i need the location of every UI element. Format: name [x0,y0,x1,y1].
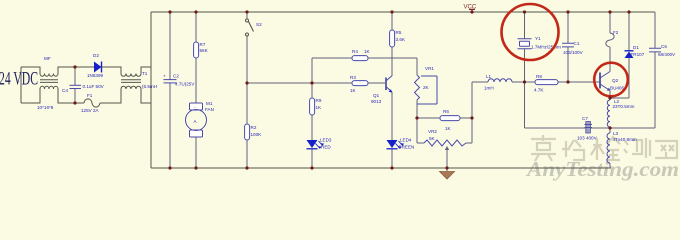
motor M1 FAN [190,103,203,110]
svg-text:M1: M1 [206,101,213,106]
svg-text:1mH: 1mH [484,86,494,91]
wire y58 [312,57,417,59]
source bracket [20,67,22,103]
svg-text:1K: 1K [350,88,357,93]
svg-text:100K: 100K [251,132,263,137]
svg-text:D1: D1 [633,45,639,50]
Q2 emitter / L2 / L3 branch [609,91,611,169]
svg-text:RED: RED [321,145,331,150]
svg-text:0.1uF 50V: 0.1uF 50V [83,84,105,89]
wire y118 with R6 [417,117,472,119]
wire y128 [525,127,656,129]
svg-text:VCC: VCC [464,5,477,11]
capacitor C2 branch [169,12,171,168]
svg-text:C4: C4 [62,88,68,93]
svg-text:L1: L1 [486,74,492,79]
LED3 RED [307,140,318,148]
svg-text:F1: F1 [87,93,93,98]
fuse F1 [84,99,100,107]
svg-text:F2: F2 [613,30,619,35]
svg-text:10*16*8: 10*16*8 [37,105,54,110]
top rail [151,11,655,13]
inductor L2 [607,100,610,127]
crystal Y1 branch [524,12,526,128]
svg-text:1K: 1K [445,126,452,131]
annotation red circle 1 (crystal) [502,4,559,60]
svg-text:FR107: FR107 [631,52,645,57]
svg-text:C6: C6 [661,44,667,49]
resistor R2 100K [245,124,250,140]
wire y82 from bridge to Q2 base, with L1 gap [472,81,600,83]
svg-text:R8: R8 [536,74,542,79]
svg-text:BU406: BU406 [610,86,624,91]
diode D1 FR107 [625,52,634,59]
svg-text:68/400V: 68/400V [658,52,676,57]
switch S2 [246,19,249,22]
svg-text:LED4: LED4 [400,138,412,143]
LED4 GREEN [387,140,398,148]
resistor R5 3.6K [390,30,395,47]
wire: bottom input wire + choke bottom winding [21,86,84,103]
T1 core [121,80,141,83]
svg-text:Q2: Q2 [612,78,619,83]
crystal Y1 [518,39,532,49]
right edge vertical + C6 [654,12,656,128]
wire y83 from S2 branch to Q1 base [247,82,385,84]
svg-text:AnyTesting.com: AnyTesting.com [525,157,679,181]
svg-text:+: + [163,74,166,79]
resistor R4 1K [352,56,368,61]
resistor R8 4.7K [535,80,558,85]
svg-text:L3: L3 [613,131,619,136]
svg-text:23T0.5mm: 23T0.5mm [613,104,635,109]
svg-text:R2: R2 [251,125,257,130]
Q1 emitter / LED4 branch [391,92,393,168]
svg-text:125V 2A: 125V 2A [81,108,100,113]
svg-text:FAN: FAN [205,107,214,112]
svg-text:R6: R6 [443,109,449,114]
svg-text:VR1: VR1 [425,66,434,71]
diode D2 1N5399 [94,62,102,73]
wire: top input wire + common-mode choke LF1 top winding [21,67,94,76]
svg-text:R9: R9 [316,98,322,103]
choke core [40,80,58,83]
svg-text:103 400V: 103 400V [577,136,598,141]
svg-text:56K: 56K [200,48,209,53]
svg-text:Q1: Q1 [373,93,380,98]
resistor R3 1K [352,81,368,86]
transformer T1 top winding + wire to right rail [102,67,152,76]
potentiometer VR1 2K [416,58,418,143]
capacitor C4 0.1uF [74,67,76,103]
right bridge vertical [471,82,473,143]
left vertical rail [150,12,152,168]
svg-text:(6.5mH: (6.5mH [142,84,157,89]
svg-text:T1: T1 [142,71,148,76]
svg-text:2K: 2K [423,85,430,90]
resistor R6 1K [440,116,460,121]
VR2 wiper to ground [446,148,448,168]
svg-text:1K: 1K [316,105,323,110]
VCC symbol [469,9,475,13]
capacitor C7 [586,122,591,134]
switch S2 branch [246,12,248,168]
resistor R7 + motor branch wire [195,12,197,168]
svg-text:C7: C7 [582,116,588,121]
transistor Q1 9013 [385,78,387,91]
svg-text:24 VDC: 24 VDC [0,69,38,90]
transistor Q2 BU406 [599,73,601,89]
svg-text:C2: C2 [173,74,179,79]
resistor R9 1K [310,98,315,115]
inductor L3 [607,133,610,163]
annotation red circle 2 (Q2) [594,63,628,97]
svg-text:5K: 5K [429,136,436,141]
svg-text:S2: S2 [256,22,262,27]
svg-text:VR2: VR2 [428,129,437,134]
svg-text:LED3: LED3 [320,138,332,143]
svg-text:1K: 1K [364,49,371,54]
svg-text:GREEN: GREEN [398,145,414,150]
svg-text:MF: MF [44,56,51,61]
svg-text:C1: C1 [574,41,580,46]
svg-text:103/100V: 103/100V [563,50,584,55]
svg-text:R4: R4 [352,49,358,54]
diode D1 branch [610,12,629,98]
svg-text:D2: D2 [93,53,99,58]
resistor R7 56K [194,42,199,58]
potentiometer VR2 5K [417,142,472,144]
svg-text:4Tx40.8mm: 4Tx40.8mm [613,137,637,142]
Q1 collector / R5 branch [391,12,393,76]
svg-text:R7: R7 [200,42,206,47]
branch x312 [311,58,313,168]
fuse F2 [606,33,614,47]
svg-text:1N5399: 1N5399 [87,73,104,78]
svg-text:4.7K: 4.7K [534,88,544,93]
svg-text:3.6K: 3.6K [396,37,406,42]
watermark 嘉峪检测网 [531,135,677,161]
bottom rail [151,167,611,169]
capacitor C1 branch [567,12,569,82]
svg-text:R3: R3 [350,75,356,80]
inductor L1 1mH [488,79,512,82]
svg-text:Y1: Y1 [535,36,541,41]
transformer T1 bottom winding [100,86,151,103]
ground [446,168,448,171]
svg-text:9013: 9013 [371,99,382,104]
fuse F2 / Q2 branch [609,12,611,72]
svg-text:4.7U(25V: 4.7U(25V [175,82,195,87]
svg-text:R5: R5 [396,30,402,35]
